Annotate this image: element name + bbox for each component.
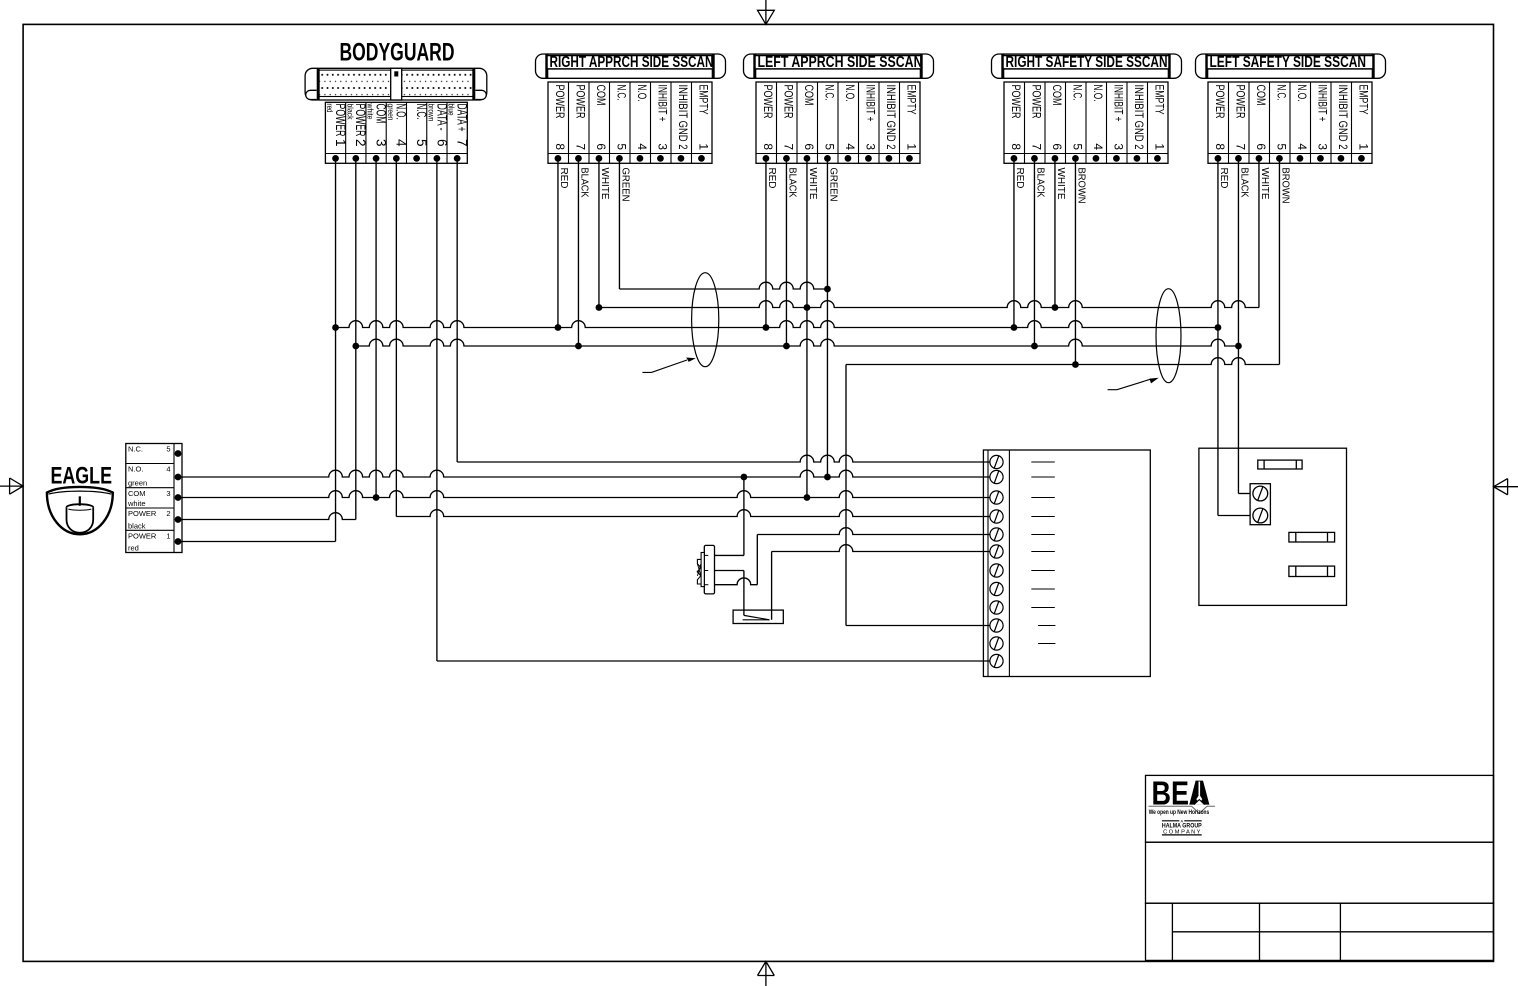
svg-text:2: 2 — [353, 139, 368, 147]
svg-text:blue: blue — [447, 104, 457, 116]
wire green N.C. bus — [619, 282, 827, 289]
svg-text:3: 3 — [166, 489, 170, 498]
BEA logo — [1148, 775, 1215, 836]
cable ellipse callout (safety side) — [1156, 289, 1181, 383]
wire LEFT APPRCH WHITE drop — [806, 158, 808, 497]
sensor block LEFT SAFETY SIDE SSCAN — [1196, 54, 1386, 200]
wire LEFT SAFETY RED to power supply terminal — [1218, 515, 1250, 517]
wire DATA+ line to controller terminal 1 — [457, 455, 990, 462]
power supply top fuse — [1258, 460, 1302, 469]
svg-text:2: 2 — [166, 509, 170, 518]
svg-text:RIGHT SAFETY SIDE SSCAN: RIGHT SAFETY SIDE SSCAN — [1006, 54, 1168, 71]
wire key switch middle contact to mat switch — [715, 570, 744, 572]
svg-text:5: 5 — [166, 445, 170, 454]
wire key switch lower contact — [715, 578, 758, 585]
junctions on white COM bus — [596, 304, 603, 311]
svg-text:4: 4 — [394, 139, 409, 147]
wire LEFT SAFETY WHITE drop — [1258, 158, 1260, 307]
wire BODYGUARD DATA+ drop — [456, 158, 458, 462]
cable ellipse callout (approach side) — [692, 273, 719, 367]
wire EAGLE POWER 2 black line — [178, 513, 356, 520]
wire RIGHT APPRCH RED drop — [557, 158, 559, 327]
svg-text:6: 6 — [434, 139, 449, 147]
wire LEFT APPRCH BLACK drop — [785, 158, 787, 346]
wire DATA- line to controller terminal 12 — [437, 660, 990, 662]
power supply fuse holder 1 — [1289, 532, 1335, 542]
svg-text:1: 1 — [166, 532, 170, 541]
svg-text:7: 7 — [455, 139, 470, 147]
svg-text:white: white — [366, 103, 376, 120]
top centre fold mark — [758, 0, 775, 24]
wire EAGLE POWER 1 red line — [178, 541, 336, 543]
wire BODYGUARD COM drop — [375, 158, 377, 497]
wire LEFT SAFETY RED drop to power supply — [1217, 158, 1219, 515]
wire key switch feed from green line — [743, 477, 745, 555]
key switch (reset) — [697, 545, 714, 594]
svg-text:HALMA GROUP: HALMA GROUP — [1162, 823, 1202, 830]
wire BODYGUARD DATA- drop — [436, 158, 438, 661]
wire LEFT APPRCH RED drop — [765, 158, 767, 327]
power supply fuse holder 2 — [1289, 566, 1335, 576]
wire white COM bus — [599, 301, 1259, 308]
EAGLE sensor icon — [47, 487, 113, 534]
svg-text:EAGLE: EAGLE — [51, 463, 113, 490]
wire BODYGUARD POWER 2 drop — [355, 158, 357, 519]
sensor block RIGHT SAFETY SIDE SSCAN — [992, 54, 1182, 200]
left fold mark — [0, 478, 23, 494]
svg-text:green: green — [386, 104, 396, 121]
power supply box — [1199, 448, 1347, 605]
svg-text:POWER: POWER — [128, 532, 157, 541]
wire RIGHT APPRCH GREEN drop — [618, 158, 620, 289]
svg-text:black: black — [345, 104, 355, 121]
svg-text:GREEN: GREEN — [827, 168, 838, 202]
controller pin dashes — [1031, 462, 1055, 644]
wire LEFT SAFETY BLACK to power supply terminal — [1238, 493, 1250, 495]
callout arrow (approach side) — [642, 360, 687, 372]
wire LEFT SAFETY BROWN drop — [1278, 158, 1280, 364]
sensor block LEFT APPRCH SIDE SSCAN — [744, 54, 934, 200]
wire LEFT APPRCH GREEN drop — [826, 158, 828, 477]
controller screw terminals 1-12 — [990, 455, 1003, 667]
wire RIGHT SAFETY WHITE drop — [1054, 158, 1056, 307]
wire safety bus drop to controller terminal 10 — [845, 365, 847, 626]
svg-text:RIGHT APPRCH SIDE SSCAN: RIGHT APPRCH SIDE SSCAN — [550, 54, 714, 71]
svg-text:N.O.: N.O. — [128, 465, 143, 474]
svg-text:white: white — [127, 499, 146, 508]
wire EAGLE COM white line to controller terminal 3 — [178, 491, 990, 498]
svg-text:BROWN: BROWN — [1075, 168, 1086, 204]
wire RIGHT SAFETY RED drop — [1013, 158, 1015, 327]
svg-text:red: red — [128, 544, 139, 553]
title block frame — [1146, 775, 1494, 960]
svg-text:GREEN: GREEN — [619, 168, 630, 202]
wire brown safety N.C. bus — [846, 358, 1279, 365]
svg-text:We open up New Horizons: We open up New Horizons — [1149, 809, 1210, 816]
svg-text:BODYGUARD: BODYGUARD — [340, 39, 455, 67]
svg-text:red: red — [325, 104, 335, 113]
wire red POWER bus — [336, 321, 1218, 328]
wire LEFT SAFETY BLACK drop to power supply — [1237, 158, 1239, 493]
wire RIGHT APPRCH BLACK drop — [577, 158, 579, 346]
svg-text:BROWN: BROWN — [1279, 168, 1290, 204]
bottom centre fold mark — [758, 961, 775, 986]
sensor block RIGHT APPRCH SIDE SSCAN — [536, 54, 726, 200]
power supply terminal block — [1250, 484, 1270, 525]
svg-text:N.C.: N.C. — [128, 445, 143, 454]
mat switch — [733, 610, 783, 623]
wire key switch to controller terminal 5 — [757, 528, 990, 535]
junctions on EAGLE N.O. line — [741, 474, 748, 481]
svg-text:LEFT SAFETY SIDE SSCAN: LEFT SAFETY SIDE SSCAN — [1210, 54, 1367, 71]
svg-text:green: green — [128, 479, 147, 488]
callout arrow (safety side) — [1108, 379, 1151, 390]
svg-text:5: 5 — [414, 139, 429, 147]
wire black POWER bus — [356, 339, 1239, 346]
svg-text:COM: COM — [128, 489, 146, 498]
svg-text:4: 4 — [166, 465, 170, 474]
svg-text:black: black — [128, 521, 146, 530]
svg-text:brown: brown — [426, 104, 436, 122]
BODYGUARD terminal block — [325, 102, 470, 163]
svg-text:1: 1 — [333, 139, 348, 147]
door controller box — [983, 450, 1150, 677]
wire RIGHT SAFETY BROWN drop — [1074, 158, 1076, 364]
svg-text:POWER: POWER — [128, 509, 157, 518]
right fold mark — [1494, 479, 1518, 495]
wire RIGHT SAFETY BLACK drop — [1033, 158, 1035, 346]
EAGLE terminal table — [126, 444, 182, 553]
junctions on red POWER bus — [332, 324, 339, 331]
wire EAGLE N.O. green line to controller terminal 2 — [178, 470, 990, 477]
svg-text:C O M P A N Y: C O M P A N Y — [1163, 830, 1200, 836]
wire mat switch right lead — [771, 552, 773, 620]
svg-text:3: 3 — [373, 139, 388, 147]
wire BODYGUARD N.O. line to controller terminal 4 — [396, 510, 990, 517]
wire mat switch to controller terminal 6 — [772, 545, 990, 552]
BODYGUARD sensor drawing — [305, 68, 487, 100]
junction on brown safety bus — [1072, 361, 1079, 368]
wire BODYGUARD POWER 1 drop — [335, 158, 337, 541]
junctions on EAGLE COM line — [373, 494, 380, 501]
wire RIGHT APPRCH WHITE drop — [598, 158, 600, 307]
wire BODYGUARD N.O. drop — [395, 158, 397, 516]
svg-text:LEFT APPRCH SIDE SSCAN: LEFT APPRCH SIDE SSCAN — [758, 54, 923, 71]
junction on green N.C. bus — [824, 286, 831, 293]
junctions on black POWER bus — [352, 343, 359, 350]
